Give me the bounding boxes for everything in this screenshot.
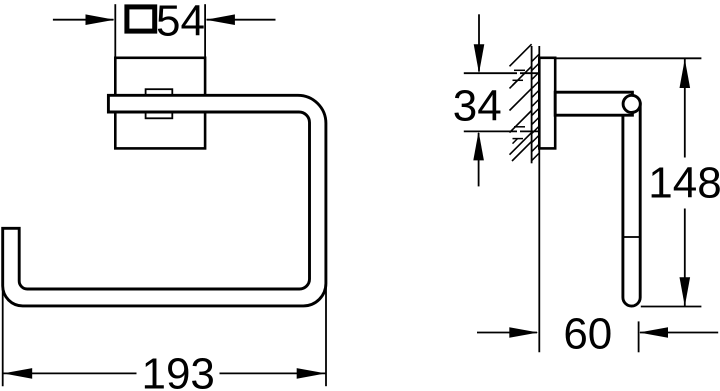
mounting bracket behind bar [146, 89, 173, 118]
dimension 54 right arrow [206, 14, 276, 25]
dimension 60 right arrow [639, 327, 718, 338]
wall surface / extension line down to 60 dim [538, 46, 540, 352]
dimension 193 left arrow [3, 368, 136, 379]
dimension 60 left arrow [477, 327, 538, 338]
extension line left of 54 dim [114, 4, 116, 57]
dense hatch band at wall surface [532, 54, 540, 161]
extension line right of 54 dim [204, 4, 206, 57]
dimension 193 right arrow [220, 368, 326, 379]
dimension 54 left arrow [53, 14, 115, 25]
dimension 34 lower arrow [473, 131, 484, 186]
towel ring body (front) [3, 95, 326, 306]
joint tick on bar [624, 236, 640, 238]
svg-text:148: 148 [648, 158, 720, 207]
hidden detail marks near bottom dim [513, 127, 526, 144]
wall line [531, 46, 533, 163]
hidden detail marks near top dim [513, 70, 526, 85]
svg-text:54: 54 [156, 0, 205, 46]
extension line left of 193 dim [2, 287, 4, 386]
dimension line 34 bottom [464, 130, 540, 132]
ring bar (side, vertical with round bottom) [623, 104, 640, 306]
dimension 34 upper arrow [474, 14, 485, 73]
extension line bottom of 148 dim [641, 306, 702, 308]
dimension line 34 top [464, 72, 540, 74]
extension line top of 148 dim [555, 57, 701, 59]
extension line right of 60 dim [638, 321, 640, 352]
arm from plate to bar [555, 92, 632, 115]
wall plate (front) [115, 58, 205, 149]
extension line right of 193 dim [325, 286, 327, 386]
bar pivot circle [623, 95, 640, 112]
wall hatching [510, 44, 532, 161]
dimension 148 top arrow [680, 59, 691, 158]
dimension 148 bottom arrow [680, 209, 691, 307]
svg-text:34: 34 [453, 82, 502, 131]
wall plate (side) [539, 58, 555, 149]
svg-text:193: 193 [141, 350, 214, 391]
svg-text:60: 60 [563, 310, 612, 359]
square symbol of 54 label [127, 7, 155, 31]
